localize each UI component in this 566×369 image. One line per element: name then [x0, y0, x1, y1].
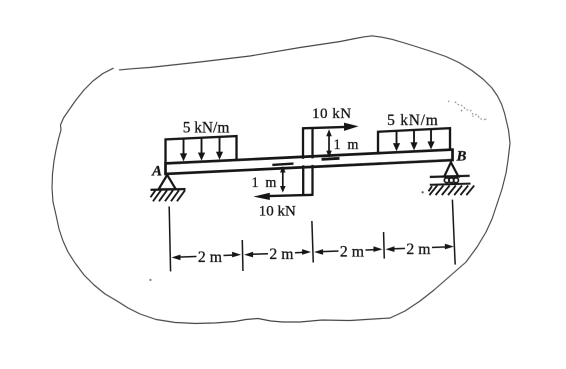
extension line A	[169, 206, 170, 271]
svg-text:B: B	[455, 148, 466, 164]
tick at 4 m	[312, 221, 313, 263]
right load arrow 3	[430, 130, 432, 143]
svg-text:10 kN: 10 kN	[312, 106, 352, 122]
force arrow 10 kN bottom	[268, 195, 314, 196]
left load arrow 3	[219, 138, 221, 154]
svg-text:5 kN/m: 5 kN/m	[183, 120, 230, 137]
right load arrow 1	[396, 132, 398, 145]
ink speck on beam	[209, 165, 211, 167]
beam AB	[166, 149, 453, 174]
tick at 6 m	[383, 232, 386, 259]
svg-text:2 m: 2 m	[198, 249, 223, 266]
hatching B	[428, 185, 474, 195]
hand-drawn blob outline	[52, 36, 510, 324]
tick at 2 m	[241, 240, 244, 271]
svg-text:1 m: 1 m	[334, 137, 360, 153]
pin support A triangle	[159, 175, 176, 189]
dimension 1 m lower	[272, 164, 293, 165]
left load arrow 2	[201, 139, 203, 155]
dimension segment 2 (2 m)	[244, 252, 253, 258]
left load arrow 1	[183, 139, 185, 155]
lower vertical bar	[303, 165, 312, 195]
svg-text:2 m: 2 m	[269, 246, 294, 263]
right distributed load outline	[378, 128, 450, 153]
svg-text:1 m: 1 m	[251, 175, 277, 191]
extension line B	[452, 200, 455, 265]
pencil smudge	[448, 101, 487, 121]
paper speck	[149, 279, 151, 281]
hatching A	[150, 190, 185, 201]
roller top line B	[430, 176, 470, 177]
dimension segment 4 (2 m)	[385, 246, 394, 252]
right load arrow 2	[413, 131, 415, 144]
dimension segment 1 (2 m)	[171, 255, 180, 261]
dimension 1 m upper	[326, 129, 332, 157]
rollers B	[444, 178, 458, 183]
svg-text:10 kN: 10 kN	[259, 203, 296, 219]
svg-text:A: A	[151, 163, 162, 179]
svg-text:2 m: 2 m	[406, 241, 431, 258]
ground line A	[150, 188, 185, 191]
svg-text:5 kN/m: 5 kN/m	[387, 112, 438, 129]
left distributed load outline	[166, 136, 237, 163]
force arrow 10 kN top	[302, 127, 345, 128]
ground line B	[430, 184, 471, 185]
dimension segment 3 (2 m)	[314, 249, 323, 255]
roller support B triangle	[444, 162, 458, 176]
upper vertical bar	[303, 127, 313, 159]
svg-text:2 m: 2 m	[340, 243, 365, 260]
